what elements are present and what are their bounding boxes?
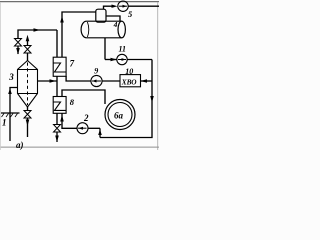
wire drain below V1: [17, 46, 19, 54]
wire return stub with up arrow: [99, 128, 101, 137]
pump 2: [77, 123, 88, 134]
valve V2 vent: [24, 46, 31, 54]
frame bottom border: [0, 146, 159, 148]
frame left border: [0, 2, 1, 150]
wire HX8 top to boiler line: [62, 90, 105, 104]
valve V1 drain branch: [15, 39, 22, 47]
wire column3 to connector: [38, 80, 58, 82]
arrow up vent: [26, 35, 30, 42]
XBO box (chemical water treatment): [120, 75, 141, 87]
arrow up on line 1: [8, 88, 12, 94]
arrow up into HX8: [60, 115, 64, 122]
svg-text:1: 1: [2, 118, 7, 128]
ground source mark: [1, 112, 20, 114]
wire pump 11 to right riser: [127, 59, 152, 61]
valve V3 column bottom: [27, 107, 29, 110]
wire valve to column top: [27, 53, 29, 61]
wire below V3: [27, 118, 29, 137]
svg-text:9: 9: [94, 66, 98, 75]
deaerator tank 4: [81, 21, 122, 38]
wire below V4: [56, 132, 58, 142]
pump 5: [112, 5, 118, 8]
svg-text:а): а): [16, 140, 24, 150]
svg-text:2: 2: [83, 113, 89, 123]
wire line 1 raw water: [10, 88, 18, 142]
arrow right on y=30 wire: [34, 28, 41, 32]
arrow down below V4: [55, 136, 59, 143]
svg-text:7: 7: [70, 59, 75, 69]
heat exchanger 7: [53, 57, 66, 76]
arrow left into XBO: [141, 79, 148, 83]
arrow right into connector: [50, 79, 57, 83]
deaerator head: [96, 9, 106, 22]
wire x=57 into HX7: [56, 30, 58, 57]
boiler 6a outer circle: [105, 100, 135, 130]
svg-text:6а: 6а: [114, 110, 124, 120]
frame right border: [157, 2, 159, 150]
wire XBO to right riser: [141, 80, 153, 82]
valve V4 HX8 drain: [54, 125, 61, 133]
wire HX7 coil outlet step: [66, 76, 91, 81]
column 3 center dashed line: [27, 63, 29, 106]
wire y=60 to pump 11: [105, 59, 117, 61]
arrow down drain: [16, 48, 20, 55]
wire HX8 bottom to pump 2: [62, 113, 77, 128]
wire shell connector HX7-HX8: [56, 76, 58, 96]
wire tank downcomer: [104, 38, 106, 60]
wire head right to tank top: [106, 16, 121, 22]
svg-text:10: 10: [125, 67, 133, 76]
svg-text:11: 11: [119, 44, 127, 53]
svg-text:8: 8: [70, 97, 75, 107]
wire pump 5 to edge: [128, 5, 159, 7]
arrow down on right riser: [150, 96, 154, 103]
pump 9: [91, 75, 102, 86]
arrow right before pump 11: [111, 58, 117, 61]
svg-text:ХВО: ХВО: [121, 77, 137, 86]
wire bottom return line: [100, 60, 152, 138]
arrow up on riser: [60, 16, 64, 23]
svg-text:3: 3: [8, 72, 14, 82]
wire HX8 bottom drain: [56, 113, 58, 124]
heat exchanger 8: [53, 97, 66, 114]
frame top border: [0, 1, 159, 3]
wire vent steam riser x=62: [62, 12, 96, 57]
wire pump9 to XBO box: [102, 80, 120, 82]
wire vent stem: [27, 41, 29, 46]
wire top horizontal y=30: [18, 30, 57, 38]
wire pump 2 to stub junction: [88, 127, 100, 129]
wire head to pump 5: [104, 6, 113, 9]
svg-text:4: 4: [113, 20, 118, 29]
boiler 6a inner circle: [108, 103, 132, 127]
column 3 vessel: [18, 61, 38, 108]
arrow down below V3: [26, 120, 30, 127]
pump 11: [117, 54, 127, 64]
